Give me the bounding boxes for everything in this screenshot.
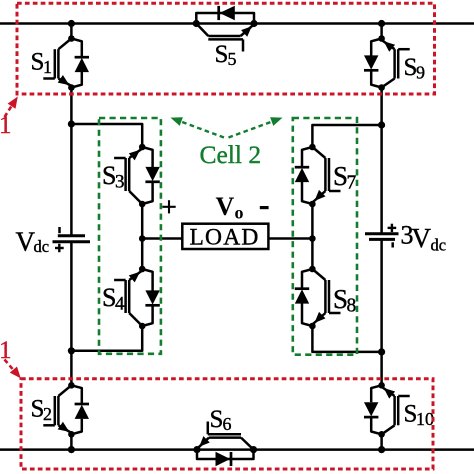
green dashed box cell 2 right xyxy=(293,118,357,355)
transistor S10 collector line xyxy=(382,425,395,434)
capacitor 3Vdc plus sign xyxy=(388,227,397,229)
IGBT S5 body bar xyxy=(208,35,240,38)
red arrow to bottom cell 1 box xyxy=(5,360,14,370)
capacitor Vdc plus sign xyxy=(55,247,64,249)
svg-text:V: V xyxy=(216,192,235,221)
svg-text:1: 1 xyxy=(43,57,52,77)
wire right load tap to S8 xyxy=(311,239,314,270)
transistor S10 gate lead xyxy=(398,395,410,398)
svg-text:2: 2 xyxy=(43,404,52,424)
capacitor 3Vdc minus tick xyxy=(391,242,394,247)
capacitor Vdc xyxy=(58,234,85,237)
transistor S3 collector line xyxy=(129,191,142,204)
transistor S2 gate bar xyxy=(54,396,57,425)
freewheeling diode of S10 xyxy=(371,385,381,402)
transistor S8 gate lead xyxy=(329,312,341,315)
transistor S9 collector line xyxy=(382,79,395,88)
svg-text:10: 10 xyxy=(416,409,434,429)
transistor S7 gate bar xyxy=(328,158,331,191)
IGBT S6 collector line xyxy=(241,438,254,450)
transistor S7 collector line xyxy=(312,147,325,158)
svg-text:V: V xyxy=(16,227,36,257)
node dot bottom of S7 xyxy=(309,201,316,208)
svg-text:LOAD: LOAD xyxy=(190,225,260,251)
transistor S7 gate lead xyxy=(329,190,341,193)
transistor S8 gate bar xyxy=(328,280,331,313)
transistor S3 body bar xyxy=(128,158,131,191)
red arrow to top cell 1 box xyxy=(5,105,13,118)
wire right load tap to LOAD xyxy=(268,237,312,240)
wire left cell top branch xyxy=(71,124,142,147)
left rail wire S1-to-tap segment xyxy=(70,88,73,236)
node dot bottom of S1 xyxy=(68,84,75,91)
svg-text:dc: dc xyxy=(431,236,447,255)
transistor S4 gate lead xyxy=(114,279,126,282)
junction node right cell tap xyxy=(378,121,385,128)
transistor S3 emitter line with arrow xyxy=(129,149,142,159)
transistor S10 emitter line with arrow xyxy=(382,387,395,396)
transistor S10 body bar xyxy=(393,396,396,425)
transistor S3 gate bar xyxy=(124,158,127,191)
node dot S5 right xyxy=(250,20,257,27)
transistor S2 body bar xyxy=(57,396,60,425)
transistor S2 collector line xyxy=(58,385,71,396)
svg-text:8: 8 xyxy=(347,296,357,317)
transistor S2 emitter line with arrow xyxy=(58,425,71,433)
wire right cell top branch xyxy=(312,125,381,147)
node dot top of S1 xyxy=(68,35,75,42)
junction node left cell bottom xyxy=(68,347,75,354)
IGBT S5 diode loop xyxy=(196,13,254,24)
node dot top of S9 xyxy=(378,35,385,42)
freewheeling diode of S2 xyxy=(71,385,81,404)
node dot top of S8 xyxy=(309,266,316,273)
svg-text:4: 4 xyxy=(115,294,125,315)
IGBT S6 gate bar xyxy=(208,433,241,436)
wire left cell bottom branch xyxy=(71,326,142,351)
IGBT S6 emitter line with arrow xyxy=(197,438,209,449)
svg-text:S: S xyxy=(210,406,224,433)
node dot bottom of S2 xyxy=(68,431,75,438)
transistor S1 collector line xyxy=(58,39,71,50)
node dot S6 right xyxy=(250,446,257,453)
transistor S7 body bar xyxy=(324,158,327,191)
svg-text:5: 5 xyxy=(228,49,237,69)
green arrow to right cell 2 box xyxy=(229,121,276,138)
junction node left cell tap xyxy=(68,120,75,127)
junction node top-right xyxy=(378,20,385,27)
freewheeling diode of S4 xyxy=(142,269,152,291)
junction node right load tap xyxy=(309,235,316,242)
junction node bottom-left xyxy=(68,446,75,453)
transistor S1 gate lead xyxy=(43,77,55,80)
IGBT S6 diode loop xyxy=(197,450,254,459)
transistor S10 gate bar xyxy=(397,396,400,425)
green arrow to left cell 2 box xyxy=(178,121,224,138)
node dot top of S7 xyxy=(309,144,316,151)
capacitor 3Vdc xyxy=(365,232,399,235)
node dot top of S2 xyxy=(68,382,75,389)
junction node left load tap xyxy=(139,235,146,242)
node dot top of S3 xyxy=(139,144,146,151)
right rail wire top segment xyxy=(380,24,383,39)
node dot top of S10 xyxy=(378,382,385,389)
wire right cell bottom branch xyxy=(312,326,381,352)
red dashed box cell 1 top xyxy=(17,3,435,94)
wire left load tap to S4 xyxy=(141,239,144,270)
node dot bottom of S10 xyxy=(378,431,385,438)
left rail wire top segment xyxy=(70,24,73,39)
svg-text:3: 3 xyxy=(115,172,125,193)
transistor S4 collector line xyxy=(129,313,142,326)
node dot bottom of S4 xyxy=(139,323,146,330)
svg-text:Cell 2: Cell 2 xyxy=(200,140,262,169)
transistor S8 body bar xyxy=(324,280,327,313)
transistor S1 gate bar xyxy=(54,49,57,78)
transistor S2 gate lead xyxy=(43,424,55,427)
svg-text:V: V xyxy=(412,223,432,253)
svg-text:dc: dc xyxy=(34,237,50,256)
left rail wire cap-to-S2 segment xyxy=(70,243,73,385)
right rail wire cap-to-S10 segment xyxy=(380,241,383,386)
node dot bottom of S3 xyxy=(139,201,146,208)
label + of Vo xyxy=(162,206,175,208)
junction node bottom-right xyxy=(378,446,385,453)
transistor S7 emitter line with arrow xyxy=(312,191,325,203)
bottom rail wire xyxy=(0,448,474,451)
green dashed box cell 2 left xyxy=(99,118,161,354)
freewheeling diode of S7 xyxy=(302,147,312,167)
IGBT S5 diode xyxy=(217,6,220,20)
transistor S8 collector line xyxy=(312,269,325,280)
transistor S1 body bar xyxy=(57,49,60,78)
svg-text:7: 7 xyxy=(347,173,357,194)
svg-text:S: S xyxy=(215,41,229,68)
transistor S4 emitter line with arrow xyxy=(129,271,142,281)
wire left load tap to LOAD xyxy=(142,237,182,240)
top rail wire xyxy=(0,22,474,25)
IGBT S5 collector line xyxy=(196,24,208,37)
transistor S9 emitter line with arrow xyxy=(382,40,395,49)
freewheeling diode of S3 xyxy=(142,147,152,167)
IGBT S6 gate lead xyxy=(207,422,210,435)
IGBT S6 body bar xyxy=(209,436,241,439)
red dashed box cell 1 bottom xyxy=(21,379,433,469)
transistor S4 body bar xyxy=(128,280,131,313)
IGBT S5 gate lead xyxy=(242,39,245,51)
label - of Vo xyxy=(260,206,269,209)
svg-text:9: 9 xyxy=(416,63,425,83)
IGBT S5 gate bar xyxy=(208,38,243,41)
junction node right cell bottom xyxy=(378,348,385,355)
transistor S9 body bar xyxy=(393,49,396,78)
freewheeling diode of S8 xyxy=(302,269,312,289)
right rail wire S9-to-cap segment xyxy=(380,88,383,234)
node dot bottom of S8 xyxy=(309,323,316,330)
transistor S4 gate bar xyxy=(124,280,127,313)
right rail wire bottom segment xyxy=(380,434,383,449)
transistor S8 emitter line with arrow xyxy=(312,313,325,325)
wire left cell S3-to-load segment xyxy=(141,204,144,239)
left rail wire bottom segment xyxy=(70,434,73,449)
transistor S1 emitter line with arrow xyxy=(58,79,71,87)
LOAD box xyxy=(182,224,268,249)
freewheeling diode of S9 xyxy=(371,39,381,56)
capacitor Vdc minus tick xyxy=(58,227,61,233)
svg-text:6: 6 xyxy=(223,414,232,434)
node dot top of S4 xyxy=(139,266,146,273)
freewheeling diode of S1 xyxy=(71,39,81,58)
IGBT S5 emitter line with arrow xyxy=(241,24,254,36)
transistor S9 gate lead xyxy=(398,48,410,51)
node dot S5 left xyxy=(193,20,200,27)
node dot S6 left xyxy=(193,446,200,453)
IGBT S6 diode xyxy=(216,452,231,466)
transistor S3 gate lead xyxy=(114,157,126,160)
svg-text:o: o xyxy=(235,203,244,223)
junction node top-left xyxy=(68,20,75,27)
node dot bottom of S9 xyxy=(378,84,385,91)
transistor S9 gate bar xyxy=(397,49,400,78)
wire right cell S7-to-load segment xyxy=(311,204,314,239)
